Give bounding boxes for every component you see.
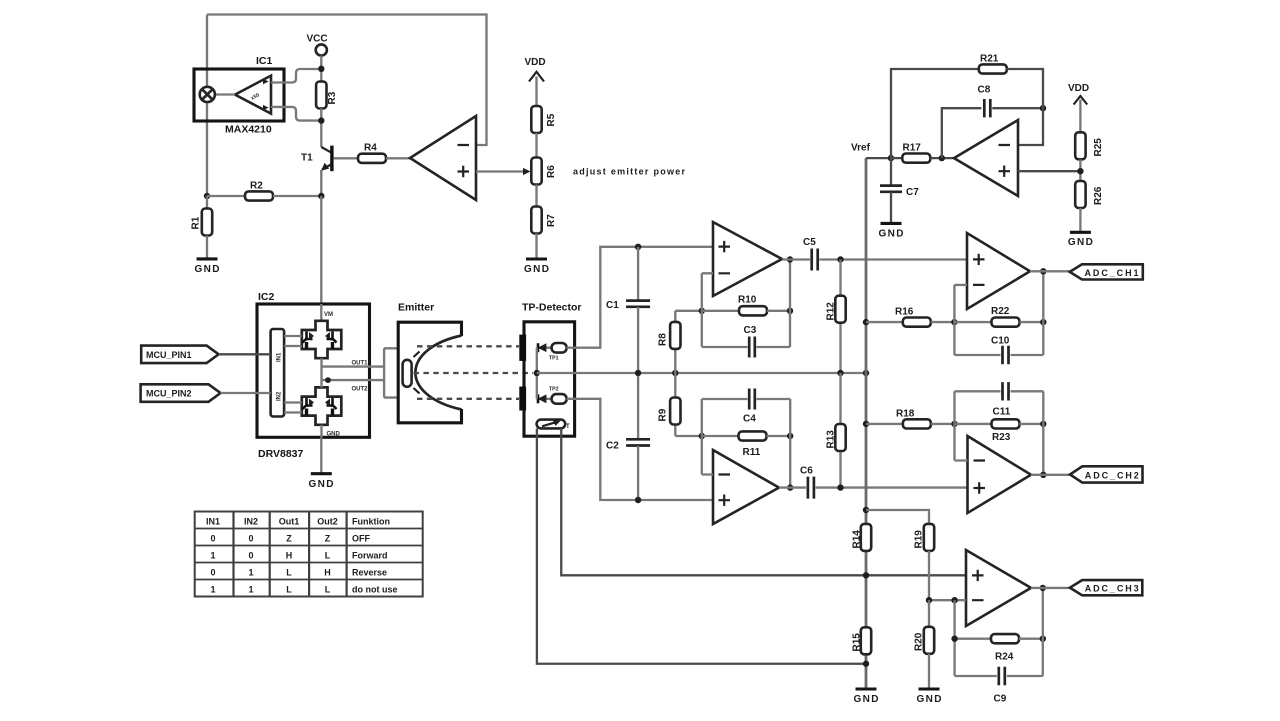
svg-text:L: L	[325, 584, 331, 594]
wire node to R2	[207, 195, 245, 197]
svg-text:R1: R1	[191, 216, 202, 229]
wire Vref rail upper	[865, 158, 868, 524]
emitter reflector curve	[415, 336, 461, 410]
capacitor C3	[702, 346, 748, 348]
input buffer block inside IC2	[271, 329, 285, 417]
wire R8 to feedback row	[675, 310, 702, 312]
svg-text:GND: GND	[524, 264, 549, 275]
resistor R4	[358, 154, 386, 163]
svg-text:R5: R5	[546, 113, 557, 126]
svg-text:R15: R15	[852, 633, 863, 652]
wire MCU_PIN2 to IC2	[221, 392, 271, 394]
op-amp Vref buffer	[954, 120, 1018, 196]
wire rail to R19	[866, 510, 929, 524]
svg-text:IC1: IC1	[256, 55, 273, 67]
node rail R16	[863, 319, 869, 325]
wire R3 to T1 collector	[320, 109, 322, 148]
wire minus input adc2	[955, 391, 968, 460]
svg-text:R14: R14	[852, 530, 863, 549]
thermal sensor T	[537, 420, 570, 430]
node R18 R23 minus	[951, 421, 957, 427]
wire left rail to R1	[206, 196, 208, 209]
svg-text:MAX4210: MAX4210	[225, 124, 272, 136]
svg-text:GND: GND	[917, 694, 942, 705]
resistor R13	[839, 373, 841, 488]
node rail R19	[863, 507, 869, 513]
op-amp emitter power control	[410, 116, 476, 200]
wire emitter node down to IC2 VM	[320, 196, 322, 304]
svg-text:do not use: do not use	[352, 584, 398, 594]
light beam lower	[417, 398, 519, 400]
wire T1 emitter to R2 node	[320, 170, 322, 196]
node op-amp1 output	[787, 256, 793, 262]
wire TP1 to filter C1	[567, 247, 713, 348]
capacitor C1	[637, 247, 639, 300]
node R24 right	[1040, 636, 1046, 642]
resistor R12	[839, 260, 841, 374]
svg-text:R16: R16	[895, 307, 914, 318]
resistor R15	[861, 627, 871, 654]
svg-text:0: 0	[210, 533, 215, 543]
wire R26 to ground	[1079, 208, 1081, 232]
wire R9 to feedback row ch2	[675, 435, 702, 437]
node mid row R8R9	[672, 370, 678, 376]
resistor R21	[891, 69, 979, 158]
wire minus input ch1	[702, 273, 713, 347]
svg-text:R11: R11	[743, 447, 761, 458]
op-amp ADC_CH2	[968, 436, 1032, 513]
wire VDD to R25	[1079, 100, 1081, 133]
svg-text:Forward: Forward	[352, 550, 388, 560]
svg-text:L: L	[286, 584, 292, 594]
op-amp ADC_CH3	[966, 550, 1031, 626]
svg-text:T: T	[566, 424, 570, 430]
ground below C7	[881, 222, 902, 225]
node mid row R12	[837, 370, 843, 376]
wire circleX to amp	[215, 93, 235, 95]
svg-text:OUT2: OUT2	[352, 387, 369, 393]
SEC_A	[141, 291, 423, 597]
svg-text:L: L	[325, 550, 331, 560]
op-amp ADC_CH1	[967, 233, 1030, 309]
svg-text:TP1: TP1	[549, 356, 559, 362]
resistor R1	[202, 209, 212, 236]
capacitor C11	[955, 390, 1001, 392]
svg-text:H: H	[324, 567, 331, 577]
net flag MCU_PIN2	[141, 384, 221, 402]
svg-text:0: 0	[248, 533, 253, 543]
SEC_D	[851, 54, 1104, 689]
wire top feedback loop	[207, 15, 487, 146]
wire output to flag ADC_CH1	[1030, 270, 1070, 272]
svg-text:IN2: IN2	[244, 516, 258, 526]
svg-text:VM: VM	[324, 312, 333, 318]
node R24 left	[951, 636, 957, 642]
wire feedback right vertical adc3	[1042, 588, 1044, 676]
wire left rail through IC1 to R2 node	[206, 102, 208, 196]
svg-text:R8: R8	[658, 333, 669, 346]
net flag ADC_CH1	[1070, 264, 1143, 279]
wire IC1 pin lower to R3 bottom	[271, 107, 321, 121]
svg-text:0: 0	[210, 567, 215, 577]
node ADC3 output	[1040, 585, 1046, 591]
svg-text:R21: R21	[980, 54, 999, 65]
node feedback left R10	[699, 308, 705, 314]
node R3 bottom	[318, 117, 324, 123]
svg-text:GND: GND	[854, 694, 879, 705]
svg-text:1: 1	[248, 567, 253, 577]
svg-text:Emitter: Emitter	[398, 302, 434, 314]
resistor R7	[531, 207, 541, 234]
svg-text:ADC_CH3: ADC_CH3	[1085, 584, 1139, 594]
svg-text:R12: R12	[826, 302, 837, 321]
wire Vref corner to C7 node	[866, 157, 891, 159]
ground below IC2	[311, 472, 332, 475]
capacitor C6	[808, 477, 814, 499]
emitter housing bracket	[398, 322, 461, 423]
svg-text:R18: R18	[896, 409, 915, 420]
node ADC1 output	[1040, 268, 1046, 274]
truth table	[195, 512, 423, 597]
node C5 R12	[837, 256, 843, 262]
svg-text:IN2: IN2	[277, 391, 283, 401]
op-amp channel1 filter	[713, 222, 782, 296]
resistor R23	[955, 423, 992, 425]
svg-text:T1: T1	[301, 153, 313, 164]
TP-Detector box	[524, 322, 575, 436]
svg-text:C6: C6	[800, 466, 813, 477]
wire feedback right vertical adc2	[1042, 391, 1044, 475]
wire R6 to R7	[535, 185, 537, 207]
node feedback left R11	[699, 433, 705, 439]
svg-text:R6: R6	[546, 165, 557, 178]
wire VDD to R5	[535, 77, 537, 107]
wire bridge link	[320, 358, 322, 387]
capacitor C2	[637, 373, 639, 439]
svg-text:VDD: VDD	[525, 57, 546, 68]
IC2 box DRV8837	[257, 304, 370, 437]
capacitor C7	[890, 158, 892, 185]
wire op-amp1 output to C5	[782, 258, 810, 260]
detector window bar upper	[519, 335, 526, 361]
resistor R19	[924, 524, 934, 551]
svg-text:IN1: IN1	[277, 352, 283, 362]
wire MCU_PIN1 to IC2	[219, 353, 271, 355]
wire feedback right vertical ch1	[789, 260, 791, 348]
svg-text:R10: R10	[738, 295, 757, 306]
wire R2 to T1 emitter node	[273, 195, 321, 197]
resistor R2	[245, 191, 273, 200]
node Vref	[888, 155, 894, 161]
resistor R20	[928, 600, 930, 627]
svg-text:C5: C5	[803, 237, 816, 248]
node rail divider	[863, 572, 869, 578]
capacitor C4	[702, 398, 748, 400]
wire VCC to R3	[320, 56, 322, 82]
svg-text:R9: R9	[658, 408, 669, 421]
svg-text:C10: C10	[991, 336, 1010, 347]
resistor R16	[866, 321, 903, 323]
wire common node to Vref rail	[537, 372, 866, 374]
svg-text:OFF: OFF	[352, 533, 370, 543]
svg-text:Funktion: Funktion	[352, 516, 390, 526]
svg-text:C1: C1	[606, 300, 619, 311]
SEC_B	[384, 247, 966, 664]
node R25 R26	[1077, 168, 1083, 174]
wire feedback right vertical adc1	[1042, 271, 1044, 355]
resistor R24	[955, 638, 991, 640]
pin marks inside IC1 amp	[263, 79, 269, 84]
node OUT2 stub	[325, 377, 331, 383]
svg-text:ADC_CH2: ADC_CH2	[1085, 470, 1139, 480]
wire bridge to GND pin	[320, 425, 322, 438]
svg-text:VDD: VDD	[1068, 83, 1089, 94]
node C2 bottom	[635, 497, 641, 503]
node R19 R20	[926, 597, 932, 603]
svg-text:R4: R4	[364, 143, 377, 154]
svg-text:Z: Z	[325, 533, 331, 543]
wire output to flag ADC_CH3	[1031, 587, 1070, 589]
node R17 C8	[939, 155, 945, 161]
svg-text:C7: C7	[906, 187, 919, 198]
svg-text:GND: GND	[1068, 237, 1093, 248]
wire feedback right vertical ch2	[789, 399, 791, 488]
svg-text:IN1: IN1	[206, 516, 220, 526]
wire R25 to node	[1079, 159, 1081, 181]
wire output to flag ADC_CH2	[1031, 474, 1070, 476]
node R2 left	[204, 193, 210, 199]
node C8 right	[1040, 105, 1046, 111]
svg-text:Out2: Out2	[317, 516, 338, 526]
svg-text:MCU_PIN1: MCU_PIN1	[146, 350, 192, 360]
ground below R26	[1070, 231, 1091, 234]
node VCC/R3/IC1	[318, 66, 324, 72]
svg-text:R3: R3	[327, 91, 338, 104]
svg-text:0: 0	[248, 550, 253, 560]
wire Vref rail lower	[865, 551, 868, 689]
connector IC2 to emitter	[384, 348, 398, 397]
wire minus input ch2	[702, 399, 713, 475]
emitter LED lens	[403, 360, 412, 387]
svg-text:R19: R19	[914, 530, 925, 549]
potentiometer R6	[531, 158, 541, 185]
svg-text:adjust emitter power: adjust emitter power	[573, 167, 685, 177]
emission ticks	[414, 352, 420, 394]
svg-text:R23: R23	[992, 432, 1011, 443]
svg-text:TP2: TP2	[549, 387, 559, 393]
svg-text:GND: GND	[309, 479, 334, 490]
wire left rail upper	[206, 15, 208, 88]
svg-text:C4: C4	[743, 414, 756, 425]
ground below R15	[856, 687, 877, 690]
svg-text:R25: R25	[1093, 138, 1104, 157]
node R22 right	[1040, 319, 1046, 325]
svg-text:Z: Z	[286, 533, 292, 543]
transistor T1	[301, 146, 334, 172]
node rail R18	[863, 421, 869, 427]
resistor R11	[702, 435, 739, 437]
resistor R14	[861, 524, 871, 551]
node mid row C1C2	[635, 370, 641, 376]
svg-text:L: L	[286, 567, 292, 577]
svg-text:C3: C3	[744, 325, 757, 336]
svg-text:GND: GND	[327, 432, 341, 438]
svg-text:MCU_PIN2: MCU_PIN2	[146, 389, 192, 399]
H-bridge top half	[302, 321, 342, 358]
node feedback right R10	[787, 308, 793, 314]
node T1 emitter	[318, 193, 324, 199]
node op-amp2 output	[787, 484, 793, 490]
node R23 right	[1040, 421, 1046, 427]
wire IC2 GND pin to ground	[320, 437, 322, 473]
svg-text:1: 1	[210, 584, 215, 594]
node minus vertical adc3	[951, 597, 957, 603]
resistor R17	[891, 157, 902, 159]
resistor R22	[954, 321, 991, 323]
node photodiode common	[534, 370, 540, 376]
svg-text:GND: GND	[879, 228, 904, 239]
svg-text:1: 1	[210, 550, 215, 560]
wire C6 to ADC_CH2 opamp plus	[816, 486, 968, 488]
net flag ADC_CH3	[1070, 580, 1142, 595]
svg-text:Vref: Vref	[851, 143, 871, 154]
light beam middle	[414, 372, 534, 374]
wire R1 to ground	[206, 236, 208, 259]
resistor R5	[531, 106, 541, 133]
svg-text:Out1: Out1	[279, 516, 300, 526]
wire R7 to ground	[535, 234, 537, 259]
wire T sensor pin2 to ground row	[537, 428, 866, 663]
capacitor C8	[942, 108, 982, 158]
resistor R25	[1075, 132, 1085, 159]
photodiode TP1	[537, 343, 567, 362]
ground below R1	[197, 257, 218, 260]
svg-text:R20: R20	[914, 632, 925, 651]
svg-text:ADC_CH1: ADC_CH1	[1085, 268, 1139, 278]
capacitor C5	[812, 249, 818, 271]
wire T1 base to R4	[334, 157, 358, 159]
wire R4 to op-amp output	[386, 157, 410, 159]
node R16 R22 minus	[951, 319, 957, 325]
svg-text:C8: C8	[978, 85, 991, 96]
wire R5 to R6	[535, 133, 537, 158]
node mid row rail	[863, 370, 869, 376]
wire minus input adc3	[929, 599, 966, 601]
svg-text:R22: R22	[991, 306, 1010, 317]
wire feedback vertical adc3	[953, 600, 955, 676]
wire photodiode common	[536, 348, 538, 399]
svg-text:GND: GND	[195, 264, 220, 275]
node TP1 wire / C1 top	[635, 244, 641, 250]
wire T sensor pin1 to divider row	[561, 428, 966, 575]
node feedback right R11	[787, 433, 793, 439]
svg-text:R13: R13	[826, 430, 837, 449]
wire IC1 pin upper to R3 top	[271, 69, 321, 83]
photodiode TP2	[537, 387, 567, 404]
svg-text:R24: R24	[995, 652, 1014, 663]
wire C5 to ADC_CH1 opamp plus	[819, 258, 967, 260]
SEC_E	[852, 233, 1143, 705]
capacitor C9	[955, 675, 997, 677]
light beam upper	[417, 345, 519, 347]
SEC_C	[606, 222, 968, 524]
wire plus input to divider	[1018, 170, 1080, 172]
wire minus input ch1 adc	[954, 285, 967, 355]
svg-text:TP-Detector: TP-Detector	[522, 302, 582, 314]
ground below R7	[526, 257, 547, 260]
wire TP2 to filter C2	[567, 399, 713, 500]
current sense element circle-X of IC1	[200, 87, 215, 102]
svg-text:VCC: VCC	[307, 34, 328, 45]
svg-text:R2: R2	[250, 181, 263, 192]
H-bridge bottom half	[302, 387, 342, 424]
node ADC2 output	[1040, 472, 1046, 478]
wire op-amp plus input to R6 wiper	[476, 170, 525, 172]
IC1 box	[194, 69, 284, 121]
wire VM pin	[320, 304, 322, 321]
svg-text:R7: R7	[546, 214, 557, 227]
node C6 R13	[837, 484, 843, 490]
svg-text:C2: C2	[606, 441, 619, 452]
resistor R18	[866, 423, 903, 425]
svg-text:H: H	[286, 550, 293, 560]
net flag ADC_CH2	[1070, 466, 1143, 482]
op-amp IC1 internal amplifier	[235, 76, 271, 114]
resistor R26	[1075, 181, 1085, 208]
wire R19 to minus node	[928, 551, 930, 600]
resistor R9	[674, 373, 676, 436]
resistor R10	[702, 310, 739, 312]
svg-text:C9: C9	[994, 694, 1007, 705]
detector window bar lower	[519, 387, 526, 411]
resistor R8	[674, 311, 676, 373]
svg-text:IC2: IC2	[258, 291, 275, 303]
svg-text:R26: R26	[1093, 186, 1104, 205]
node rail ground row	[863, 661, 869, 667]
svg-text:Reverse: Reverse	[352, 567, 387, 577]
net flag MCU_PIN1	[141, 346, 218, 364]
capacitor C10	[954, 354, 1000, 356]
wires buffer to bridges	[284, 336, 302, 413]
svg-text:C11: C11	[993, 407, 1011, 418]
svg-text:R17: R17	[903, 143, 922, 154]
resistor R3	[316, 82, 326, 109]
wire op-amp2 output to C6	[779, 486, 806, 488]
svg-text:1: 1	[248, 584, 253, 594]
op-amp channel2 filter	[713, 450, 779, 524]
svg-text:DRV8837: DRV8837	[258, 448, 303, 460]
ground below R20	[919, 687, 940, 690]
